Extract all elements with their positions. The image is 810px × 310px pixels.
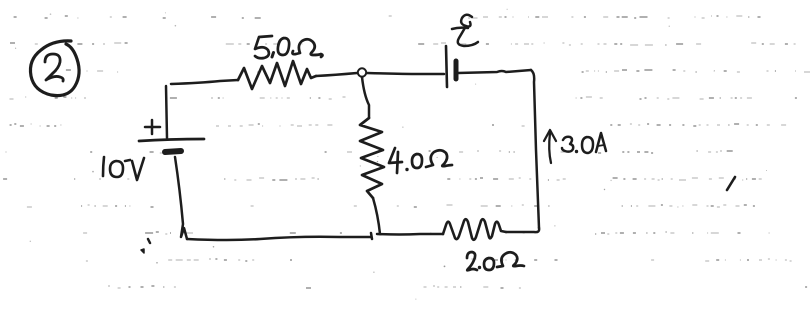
battery 10V long plate [139,139,204,141]
label EMF script epsilon [452,15,478,46]
wire middle branch bottom [373,198,380,234]
wire resistor to node [316,73,357,76]
node junction circle [358,68,366,76]
resistor R1 5.0ohm zigzag [238,61,316,89]
resistor R3 2.0ohm zigzag [443,219,506,240]
stray pen mark right [727,177,735,190]
wire top-left horizontal [171,80,238,84]
EMF battery short plate [454,61,459,79]
stray tick mark near 10V [148,239,150,243]
wire right vertical [531,70,539,228]
wire middle branch from node down [362,77,369,118]
stray arrowhead mark bottom-left [141,249,144,253]
EMF battery long plate [446,46,447,87]
wire battery to top-right corner [458,70,531,73]
problem number circle 2 [30,41,79,96]
label 10V [103,157,144,180]
label 2.0 ohm [467,252,524,270]
wire bottom-left long segment [187,237,371,240]
wire node to EMF battery [367,73,444,74]
battery 10V plus sign [145,120,160,134]
junction tick bottom middle [371,233,372,239]
current arrow 3.0A [544,130,556,163]
wire bottom-right corner to resistor [506,228,539,232]
resistor R2 4.0ohm vertical zigzag [360,118,384,198]
label 4.0 ohm [389,148,452,173]
label 3.0A [562,133,606,153]
label 5.0 ohm [255,36,323,58]
battery 10V short plate blob [165,151,181,152]
wire left branch vertical top [166,86,167,138]
wire bottom middle segment [377,233,443,236]
wire left branch bottom [175,157,187,239]
